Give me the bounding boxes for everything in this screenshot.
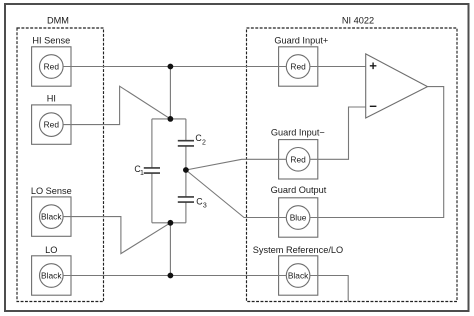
node capacitor mid junction <box>183 167 189 173</box>
DMM enclosure <box>17 16 104 302</box>
svg-text:3: 3 <box>203 203 207 210</box>
NI 4022 enclosure <box>247 16 458 302</box>
terminal LO Sense (Black) <box>31 186 72 236</box>
svg-text:NI 4022: NI 4022 <box>342 16 374 26</box>
svg-text:LO: LO <box>45 245 57 255</box>
svg-text:System Reference/LO: System Reference/LO <box>253 245 343 255</box>
svg-text:Red: Red <box>44 62 60 72</box>
svg-text:Guard Output: Guard Output <box>271 185 327 195</box>
terminal System Reference/LO (Black) <box>253 245 343 295</box>
svg-text:HI: HI <box>47 94 56 104</box>
terminal LO (Black) <box>32 245 71 295</box>
svg-text:Black: Black <box>41 212 62 222</box>
terminal HI (Red) <box>32 94 71 145</box>
wire Guard Input+ to op-amp noninverting input <box>310 66 366 68</box>
node HI Sense net junction <box>168 64 174 70</box>
svg-text:LO Sense: LO Sense <box>31 186 72 196</box>
capacitor C3 <box>178 197 207 210</box>
svg-text:Black: Black <box>288 271 309 281</box>
wire C2/C3 branch verticals <box>185 119 187 223</box>
wire System Reference/LO to chassis at enclosure edge <box>310 276 348 302</box>
wire capacitor bottom node down to LO net <box>169 223 171 276</box>
capacitor C2 <box>178 133 206 146</box>
wire HI to capacitor top node (bend and diagonal) <box>63 86 170 124</box>
wire LO Sense to capacitor bottom node (bend and diagonal) <box>63 217 170 254</box>
svg-text:Blue: Blue <box>290 213 307 223</box>
node capacitor top junction <box>168 116 174 122</box>
svg-text:Red: Red <box>44 120 60 130</box>
wire capacitor bottom rail <box>152 222 186 224</box>
capacitor C1 <box>134 164 160 177</box>
wire capacitor top rail <box>152 118 186 120</box>
svg-text:Black: Black <box>41 271 62 281</box>
svg-text:1: 1 <box>140 170 144 177</box>
wire LO to System Reference/LO <box>63 275 286 277</box>
svg-text:2: 2 <box>202 139 206 146</box>
wire Guard Input- to op-amp inverting input <box>310 107 366 159</box>
wire C1 branch verticals <box>151 119 153 223</box>
terminal HI Sense (Red) <box>32 36 71 87</box>
svg-text:DMM: DMM <box>47 16 69 26</box>
terminal Guard Output (Blue) <box>271 185 327 237</box>
node capacitor bottom junction <box>168 220 174 226</box>
svg-text:Guard Input+: Guard Input+ <box>274 36 328 46</box>
wire op-amp output feedback to Guard Output <box>310 87 444 218</box>
node LO net junction <box>168 273 174 279</box>
terminal Guard Input- (Red) <box>271 128 325 180</box>
svg-text:Red: Red <box>290 154 306 164</box>
wire capacitor mid node to Guard Input- (diagonal) <box>186 159 286 170</box>
svg-text:Red: Red <box>290 62 306 72</box>
terminal Guard Input+ (Red) <box>274 36 328 86</box>
svg-text:Guard Input−: Guard Input− <box>271 128 325 138</box>
wire HI Sense to Guard Input+ <box>63 66 286 68</box>
wire vertical from HI Sense net down to capacitor top node <box>169 67 171 119</box>
wire capacitor mid node to Guard Output (diagonal) <box>186 170 286 218</box>
svg-text:HI Sense: HI Sense <box>32 36 70 46</box>
op-amp <box>366 54 428 118</box>
